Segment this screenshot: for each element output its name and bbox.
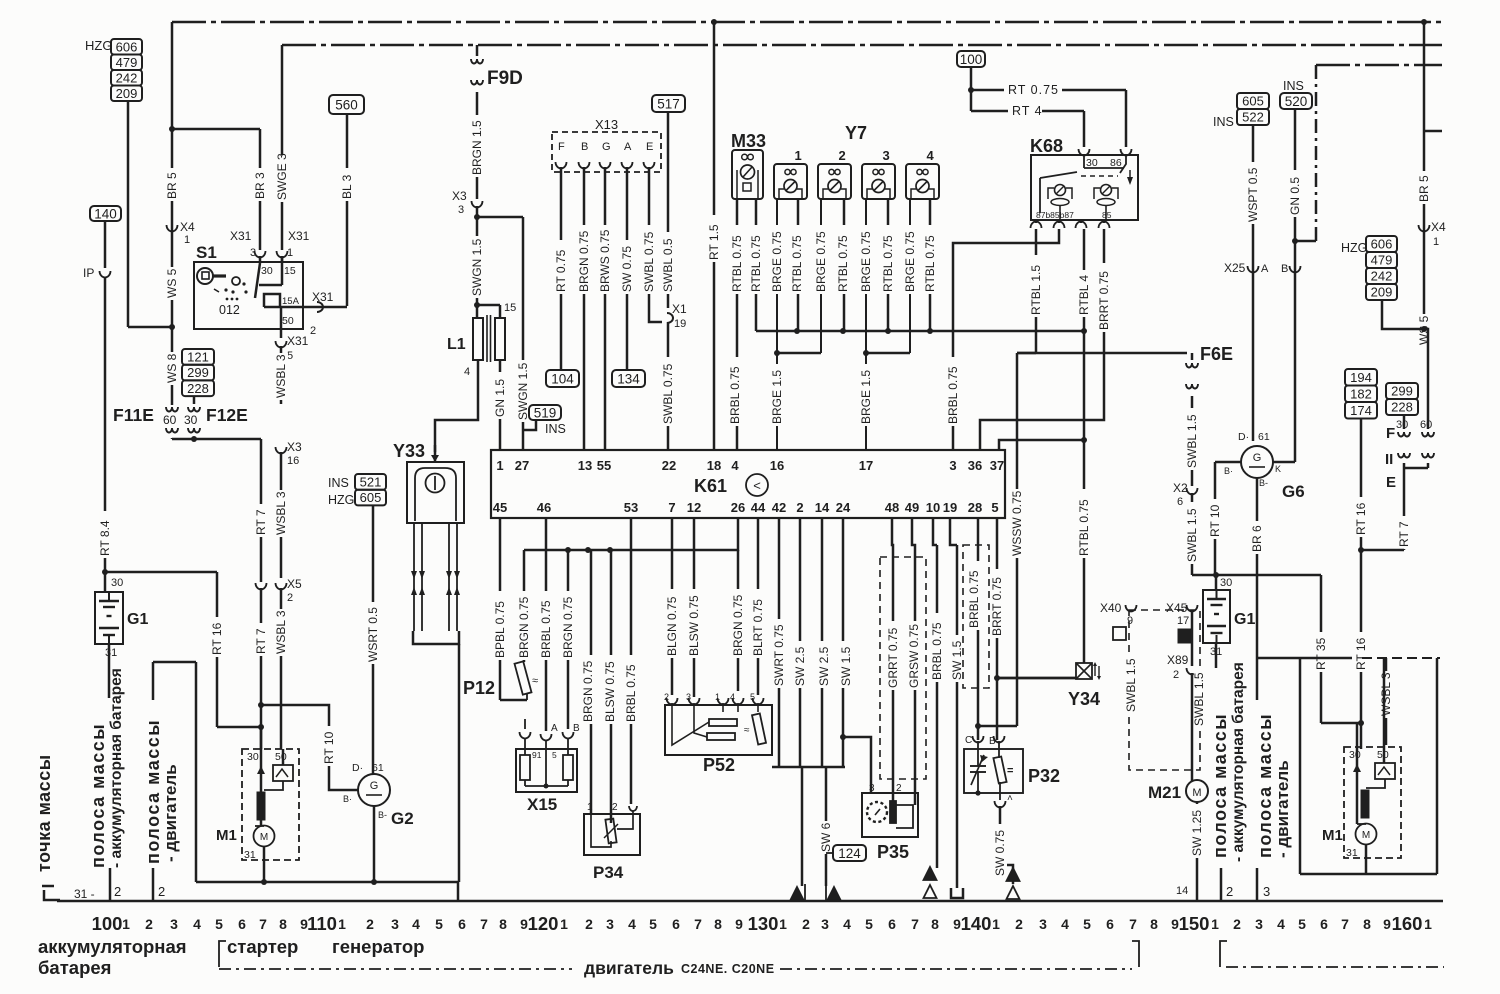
svg-text:P34: P34 — [593, 863, 624, 882]
svg-text:WSBL 3: WSBL 3 — [1379, 672, 1393, 716]
wire label SWBL 1.5 (upper) — [1185, 408, 1199, 470]
svg-text:2: 2 — [1015, 916, 1023, 932]
svg-text:B·: B· — [343, 794, 352, 804]
svg-text:14: 14 — [1176, 885, 1188, 897]
svg-text:605: 605 — [1242, 94, 1264, 109]
svg-text:HZG: HZG — [1341, 241, 1367, 255]
svg-text:M: M — [1362, 830, 1370, 841]
svg-text:G: G — [602, 141, 611, 153]
label box 517 — [652, 95, 685, 112]
ground strap bus line — [57, 900, 1443, 903]
wire WSRT 0.5 down to G2 — [372, 506, 375, 774]
connector X4 (right) — [1419, 225, 1430, 232]
label box 134 — [612, 370, 645, 387]
wire to fuse 60 — [1424, 329, 1428, 429]
svg-text:479: 479 — [1371, 253, 1393, 268]
svg-text:44: 44 — [751, 500, 766, 515]
svg-text:19: 19 — [674, 318, 686, 330]
svg-text:C: C — [965, 735, 972, 746]
svg-text:GRSW 0.75: GRSW 0.75 — [907, 624, 921, 688]
wire - branch to K61 pin 27 — [477, 216, 523, 219]
svg-text:M: M — [1192, 787, 1201, 799]
node - battery feed junction — [102, 569, 108, 575]
svg-text:6: 6 — [888, 916, 896, 932]
svg-text:X15: X15 — [527, 795, 557, 814]
wire - RTBL collector bus to K68 — [756, 330, 1084, 333]
svg-text:3: 3 — [1263, 884, 1270, 899]
wire label SWBL 1.5 (lower) — [1185, 502, 1199, 564]
wire BRGN 0.75 to P12 — [523, 550, 526, 662]
svg-text:RT 16: RT 16 — [1354, 637, 1368, 670]
ground tick 2 (engine strap) — [152, 868, 155, 901]
wire pin 42 SWRT 0.75 — [778, 518, 781, 767]
wire 140 to G1 with IP connector — [104, 221, 107, 268]
svg-text:RTBL 0.75: RTBL 0.75 — [923, 235, 937, 292]
svg-text:30: 30 — [1349, 749, 1361, 761]
svg-text:B: B — [1281, 263, 1288, 275]
svg-text:INS: INS — [328, 476, 349, 490]
svg-text:G: G — [1253, 452, 1262, 464]
svg-text:46: 46 — [537, 500, 551, 515]
svg-text:517: 517 — [657, 96, 680, 111]
starter M1 (right) — [1344, 747, 1401, 858]
wire RT 10 (left) from RT7 junction to G2 — [261, 705, 358, 790]
svg-text:7: 7 — [1341, 916, 1349, 932]
wire - top supply bus 15 (dash-dot) — [282, 44, 1442, 46]
svg-text:RT 0.75: RT 0.75 — [1008, 83, 1059, 97]
svg-text:5: 5 — [750, 692, 755, 702]
wire RTBL 4 from K68 — [1083, 229, 1086, 331]
svg-text:WSSW 0.75: WSSW 0.75 — [1010, 490, 1024, 556]
svg-text:1: 1 — [1424, 916, 1432, 932]
svg-text:479: 479 — [116, 55, 138, 70]
svg-text:606: 606 — [1371, 237, 1393, 252]
svg-text:Y33: Y33 — [393, 441, 425, 461]
svg-text:F11E: F11E — [113, 405, 154, 425]
ground loop around M1 right — [1299, 658, 1302, 874]
M33 wires down — [736, 199, 739, 450]
svg-text:24: 24 — [836, 500, 851, 515]
svg-text:RTBL 0.75: RTBL 0.75 — [1077, 499, 1091, 556]
svg-text:HZG: HZG — [328, 493, 354, 507]
X15 internal resistors — [520, 755, 530, 780]
label box stack 194/182/174 — [1345, 369, 1377, 386]
wire BRGN 0.75 to X15-B — [567, 550, 570, 729]
P52 pins — [667, 698, 678, 705]
wire BRRT 0.75 from K68 to pin 36 — [980, 229, 1104, 450]
dashed box near pins 19/28 — [963, 545, 989, 688]
svg-text:228: 228 — [1391, 400, 1413, 415]
svg-text:X25: X25 — [1224, 261, 1246, 275]
wire pin 44 BLRT 0.75 to P52 — [757, 518, 760, 695]
wire RT 0.75 from 100 to K68 pin 86 — [970, 67, 973, 111]
svg-text:- аккумуляторная батарея: - аккумуляторная батарея — [1230, 662, 1247, 862]
svg-text:≈: ≈ — [532, 675, 538, 687]
svg-text:012: 012 — [219, 303, 240, 317]
svg-text:42: 42 — [772, 500, 786, 515]
wire SWBL 1.5 inside dashed box — [1124, 652, 1138, 714]
wire L1 left leg to Y33 — [435, 360, 478, 452]
svg-text:5: 5 — [215, 916, 223, 932]
svg-text:SW 2.5: SW 2.5 — [817, 646, 831, 686]
svg-text:BLSW 0.75: BLSW 0.75 — [687, 595, 701, 656]
svg-text:WSBL 3: WSBL 3 — [274, 610, 288, 654]
svg-text:RT 35: RT 35 — [1314, 637, 1328, 670]
wire label RT 16 (left) — [210, 617, 224, 657]
injector Y7-3 wires — [865, 199, 867, 450]
svg-text:G1: G1 — [1234, 611, 1255, 628]
svg-text:30: 30 — [261, 265, 273, 277]
wire - BL 3 from 560 to S1 — [346, 114, 349, 306]
svg-text:RT 7: RT 7 — [254, 628, 268, 654]
label box stack 299/228 (right) — [1386, 383, 1418, 399]
svg-text:4: 4 — [628, 916, 636, 932]
label box 140 — [90, 206, 121, 221]
svg-text:2: 2 — [802, 916, 810, 932]
svg-text:2: 2 — [310, 325, 316, 337]
svg-text:RTBL 0.75: RTBL 0.75 — [749, 235, 763, 292]
svg-text:209: 209 — [1371, 285, 1393, 300]
wire label BRBL 0.75 to K61 pin 4 — [728, 357, 742, 426]
svg-text:RT 16: RT 16 — [1354, 502, 1368, 535]
K68 internal coil right — [1101, 185, 1112, 196]
wire - SWGE 3 drop from bus 15 — [281, 45, 284, 250]
connector X31 on BL 3 wire — [317, 302, 323, 312]
svg-text:30: 30 — [1220, 577, 1232, 589]
svg-text:SWBL 1.5: SWBL 1.5 — [1192, 672, 1206, 726]
svg-text:1: 1 — [992, 916, 1000, 932]
wire X13-E SWBL 0.75 — [648, 167, 651, 318]
ground tick 2 (right) — [1220, 868, 1223, 901]
svg-text:F12E: F12E — [206, 405, 248, 425]
svg-text:X40: X40 — [1100, 601, 1122, 615]
wire - ground collector join — [772, 766, 845, 769]
svg-text:HZG: HZG — [85, 38, 112, 53]
svg-text:SWGN 1.5: SWGN 1.5 — [470, 238, 484, 296]
svg-text:1: 1 — [1211, 916, 1219, 932]
wire label WS 5 — [165, 267, 179, 300]
wire - fuse outputs join — [172, 438, 261, 441]
wire - drop from bus 15 to F9D — [476, 45, 479, 56]
svg-text:100: 100 — [92, 913, 123, 934]
svg-text:SWBL 0.75: SWBL 0.75 — [661, 363, 675, 424]
wire SW 6 down to ground triangle 2 — [825, 767, 828, 886]
label box 104 — [546, 370, 579, 387]
svg-text:X3: X3 — [452, 189, 467, 203]
svg-text:30: 30 — [247, 751, 259, 763]
wire X13-F RT 0.75 to box 104 — [560, 167, 563, 370]
wire label WSRT 0.5 — [366, 602, 380, 664]
svg-text:G: G — [370, 780, 379, 792]
svg-text:9: 9 — [735, 916, 743, 932]
wire label BRGN 1.5 — [470, 115, 484, 177]
wire label WSBL 3 (middle) — [274, 490, 288, 537]
svg-text:WSBL 3: WSBL 3 — [274, 491, 288, 535]
svg-text:P35: P35 — [877, 842, 909, 862]
svg-text:87b85b87: 87b85b87 — [1036, 210, 1074, 220]
wire - branch to L1 terminal 15 — [477, 304, 500, 307]
wire - top supply bus 30 (dash-dot) — [172, 21, 1442, 23]
svg-text:85: 85 — [1102, 210, 1112, 220]
auxiliary connectors X40/X45 dashed box — [1129, 610, 1200, 770]
svg-text:K61: K61 — [694, 476, 727, 496]
svg-text:209: 209 — [116, 86, 138, 101]
svg-text:B: B — [573, 723, 580, 734]
wire label RT 7 (upper) — [254, 504, 268, 537]
svg-text:BRGN 1.5: BRGN 1.5 — [470, 120, 484, 175]
svg-text:X31: X31 — [312, 290, 334, 304]
svg-text:BRGE 0.75: BRGE 0.75 — [903, 231, 917, 292]
svg-text:6: 6 — [1320, 916, 1328, 932]
wire label RTBL 0.75 (M33 left) — [730, 225, 744, 294]
svg-text:4: 4 — [843, 916, 851, 932]
S1 terminal 15A contact loop — [264, 294, 280, 307]
svg-text:BRGE 0.75: BRGE 0.75 — [859, 231, 873, 292]
connector X31 pin 5 below S1 — [280, 329, 283, 338]
wire label WSBL 3 (upper) — [274, 353, 288, 400]
wire engine ground strap link — [152, 662, 155, 700]
wire HZG stack to X4 wire — [1382, 300, 1424, 329]
svg-text:RT 4: RT 4 — [1012, 104, 1043, 118]
svg-text:134: 134 — [617, 371, 640, 386]
wire - branch to S1 terminal BR 3 — [172, 128, 260, 131]
svg-text:3: 3 — [686, 692, 691, 702]
svg-text:M21: M21 — [1148, 783, 1181, 802]
svg-text:15A: 15A — [282, 296, 300, 307]
svg-text:1: 1 — [795, 148, 802, 163]
Y33 bottom bracket — [413, 631, 459, 644]
svg-text:X31: X31 — [230, 229, 252, 243]
svg-text:2: 2 — [158, 884, 165, 899]
svg-text:GN 0.5: GN 0.5 — [1288, 177, 1302, 215]
svg-text:26: 26 — [731, 500, 745, 515]
svg-text:стартер: стартер — [227, 936, 298, 957]
svg-text:BRBL 0.75: BRBL 0.75 — [624, 664, 638, 722]
svg-text:RTBL 0.75: RTBL 0.75 — [730, 235, 744, 292]
svg-text:3: 3 — [1255, 916, 1263, 932]
svg-text:8: 8 — [1363, 916, 1371, 932]
svg-text:- двигатель: - двигатель — [161, 764, 180, 862]
svg-text:31: 31 — [244, 849, 256, 861]
svg-text:6: 6 — [238, 916, 246, 932]
wire WSPT 0.5 to G6 D+ — [1252, 125, 1255, 441]
wire - engine ground rail (right) — [1257, 657, 1352, 660]
wire - BRGE pairs jog to pins 16/17 — [777, 352, 821, 355]
svg-text:BL 3: BL 3 — [340, 174, 354, 199]
svg-text:RTBL 4: RTBL 4 — [1077, 275, 1091, 315]
svg-text:2: 2 — [1233, 916, 1241, 932]
fuse F9D — [471, 59, 483, 64]
wire pin 45 BPBL 0.75 to P12 — [499, 518, 502, 700]
wire label BRGE 1.5 pin 16 — [770, 364, 784, 426]
wire pin 14 SW 2.5 — [821, 518, 824, 767]
svg-text:110: 110 — [307, 913, 337, 934]
svg-text:150: 150 — [1179, 913, 1210, 934]
wire SW 1.25 to ground — [1196, 802, 1199, 901]
svg-text:X5: X5 — [287, 577, 302, 591]
wire X13-A SW 0.75 to box 134 — [626, 167, 629, 370]
wire pin 49 GRSW 0.75 to P35 — [912, 518, 915, 805]
svg-text:560: 560 — [335, 97, 358, 112]
svg-text:7: 7 — [694, 916, 702, 932]
svg-text:M: M — [260, 832, 268, 843]
svg-text:SW 6: SW 6 — [819, 822, 833, 852]
wire from stack to fuse F12E — [193, 396, 196, 404]
svg-text:50: 50 — [282, 315, 294, 327]
M1 left ground wire — [263, 846, 266, 882]
svg-text:130: 130 — [748, 913, 779, 934]
svg-text:BRRT 0.75: BRRT 0.75 — [990, 577, 1004, 636]
injector Y7-1 wires — [776, 199, 778, 450]
svg-text:45: 45 — [493, 500, 507, 515]
svg-text:BRBL 0.75: BRBL 0.75 — [946, 366, 960, 424]
svg-text:522: 522 — [1242, 110, 1264, 125]
svg-text:5: 5 — [1083, 916, 1091, 932]
svg-text:6: 6 — [672, 916, 680, 932]
wire pin 24 SW 1.5 — [842, 518, 845, 767]
svg-text:X45: X45 — [1166, 601, 1188, 615]
svg-text:2: 2 — [287, 592, 293, 604]
svg-text:BLGN 0.75: BLGN 0.75 — [665, 596, 679, 656]
svg-text:˄: ˄ — [1007, 793, 1013, 804]
wire label BRGE 1.5 pin 17 — [859, 364, 873, 426]
wire WSSW drop and F6E feed — [1017, 352, 1036, 355]
svg-text:37: 37 — [990, 458, 1004, 473]
wire - BR 5 drop from bus 30 — [171, 22, 174, 404]
svg-text:Y34: Y34 — [1068, 689, 1100, 709]
label box 560 — [329, 95, 364, 114]
svg-text:P52: P52 — [703, 755, 735, 775]
ground triangle (filled) 2 — [828, 887, 841, 900]
svg-text:RTBL 0.75: RTBL 0.75 — [836, 235, 850, 292]
svg-text:SWBL 1.5: SWBL 1.5 — [1185, 414, 1199, 468]
svg-text:X4: X4 — [1431, 220, 1446, 234]
svg-text:9: 9 — [1383, 916, 1391, 932]
svg-text:174: 174 — [1350, 403, 1372, 418]
svg-text:140: 140 — [94, 206, 117, 221]
svg-text:L1: L1 — [447, 336, 466, 353]
M1 right thick bar — [1361, 790, 1369, 818]
svg-text:4: 4 — [730, 692, 735, 702]
ground tick 2 (battery strap) — [109, 868, 112, 901]
svg-text:IP: IP — [83, 266, 94, 280]
svg-text:F: F — [1386, 425, 1395, 442]
second section bracket — [1220, 941, 1227, 967]
svg-text:K68: K68 — [1030, 136, 1063, 156]
svg-text:BRRT 0.75: BRRT 0.75 — [1097, 271, 1111, 330]
svg-text:60: 60 — [163, 413, 177, 427]
svg-text:9: 9 — [1127, 615, 1133, 627]
wire Y33 ground to strap — [458, 644, 461, 882]
svg-text:GRRT 0.75: GRRT 0.75 — [886, 627, 900, 688]
S1 contact marks — [232, 277, 240, 285]
M1 right motor circle — [1356, 824, 1377, 845]
svg-text:1: 1 — [560, 916, 568, 932]
svg-text:B-: B- — [1259, 478, 1268, 488]
svg-text:BR 6: BR 6 — [1250, 525, 1264, 552]
wire P35 pin 3 jog to ground group — [843, 737, 871, 792]
svg-text:X4: X4 — [180, 220, 195, 234]
svg-text:A: A — [624, 141, 632, 153]
injector Y7-4 wires — [909, 199, 911, 353]
svg-text:BRGN 0.75: BRGN 0.75 — [577, 230, 591, 292]
svg-text:1: 1 — [1433, 236, 1439, 248]
svg-text:31: 31 — [105, 647, 117, 659]
svg-text:3: 3 — [170, 916, 178, 932]
svg-text:60: 60 — [1420, 419, 1432, 431]
wire label SWBL 1.5 to M21 — [1192, 666, 1206, 728]
wire label BR 3 — [253, 168, 267, 201]
svg-text:5: 5 — [865, 916, 873, 932]
wire RT 1.5 from bus 30 to K61 pin 18 — [713, 22, 716, 450]
wire BRGN 0.75 to P34 pin 1 — [590, 550, 593, 814]
svg-text:242: 242 — [1371, 269, 1393, 284]
svg-text:299: 299 — [187, 365, 209, 380]
wire BLSW 0.75 to P34 pin 2 — [610, 550, 613, 823]
svg-text:3: 3 — [391, 916, 399, 932]
svg-text:Y7: Y7 — [845, 123, 867, 143]
svg-text:19: 19 — [943, 500, 957, 515]
wire pin 10 BRBL 0.75 (dashed route) — [933, 518, 937, 545]
svg-text:полоса массы: полоса массы — [1255, 713, 1275, 858]
svg-text:160: 160 — [1392, 913, 1423, 934]
svg-text:7: 7 — [259, 916, 267, 932]
svg-text:INS: INS — [545, 422, 566, 436]
svg-text:RTBL 0.75: RTBL 0.75 — [881, 235, 895, 292]
svg-text:7: 7 — [911, 916, 919, 932]
svg-text:228: 228 — [187, 381, 209, 396]
ground triangle (filled) 1 — [791, 887, 804, 900]
svg-text:- двигатель: - двигатель — [1273, 760, 1292, 858]
wire pin 7 BLGN 0.75 to P52 — [671, 518, 674, 695]
svg-text:M1: M1 — [216, 827, 237, 844]
svg-text:BRBL 0.75: BRBL 0.75 — [728, 366, 742, 424]
svg-text:GN 1.5: GN 1.5 — [493, 379, 507, 417]
wire label BR 5 — [165, 168, 179, 201]
svg-text:X31: X31 — [287, 334, 309, 348]
svg-text:X31: X31 — [288, 229, 310, 243]
wire labels BRGE/RTBL for Y7 — [770, 225, 784, 294]
svg-text:194: 194 — [1350, 370, 1372, 385]
svg-text:5: 5 — [991, 500, 998, 515]
svg-text:7: 7 — [480, 916, 488, 932]
wire label WS 8 — [165, 352, 179, 385]
wire label RT 7 (lower) — [254, 623, 268, 656]
svg-text:61: 61 — [1258, 431, 1270, 443]
svg-text:30: 30 — [111, 577, 123, 589]
svg-text:E: E — [1386, 474, 1396, 491]
svg-text:A: A — [1261, 263, 1269, 275]
svg-text:RT 16: RT 16 — [210, 622, 224, 655]
svg-text:121: 121 — [187, 350, 209, 365]
connector on RT 7 wire — [256, 583, 267, 590]
S1 internal link to terminal 15 — [281, 256, 284, 285]
svg-text:P12: P12 — [463, 678, 495, 698]
svg-text:RTBL 0.75: RTBL 0.75 — [790, 235, 804, 292]
svg-text:4: 4 — [464, 366, 470, 378]
svg-text:BLSW 0.75: BLSW 0.75 — [603, 661, 617, 722]
svg-text:8: 8 — [1150, 916, 1158, 932]
wire G6 B+ to RT 10 — [1215, 461, 1242, 464]
svg-text:120: 120 — [528, 913, 559, 934]
svg-text:G2: G2 — [391, 809, 414, 828]
wire X13-B BRGN 0.75 to K61 pin 13 — [583, 167, 586, 450]
svg-text:4: 4 — [1061, 916, 1069, 932]
svg-text:519: 519 — [534, 405, 557, 420]
svg-text:4: 4 — [1277, 916, 1285, 932]
wire RTBL 1.5 from K68 — [1035, 229, 1038, 353]
svg-text:49: 49 — [905, 500, 919, 515]
